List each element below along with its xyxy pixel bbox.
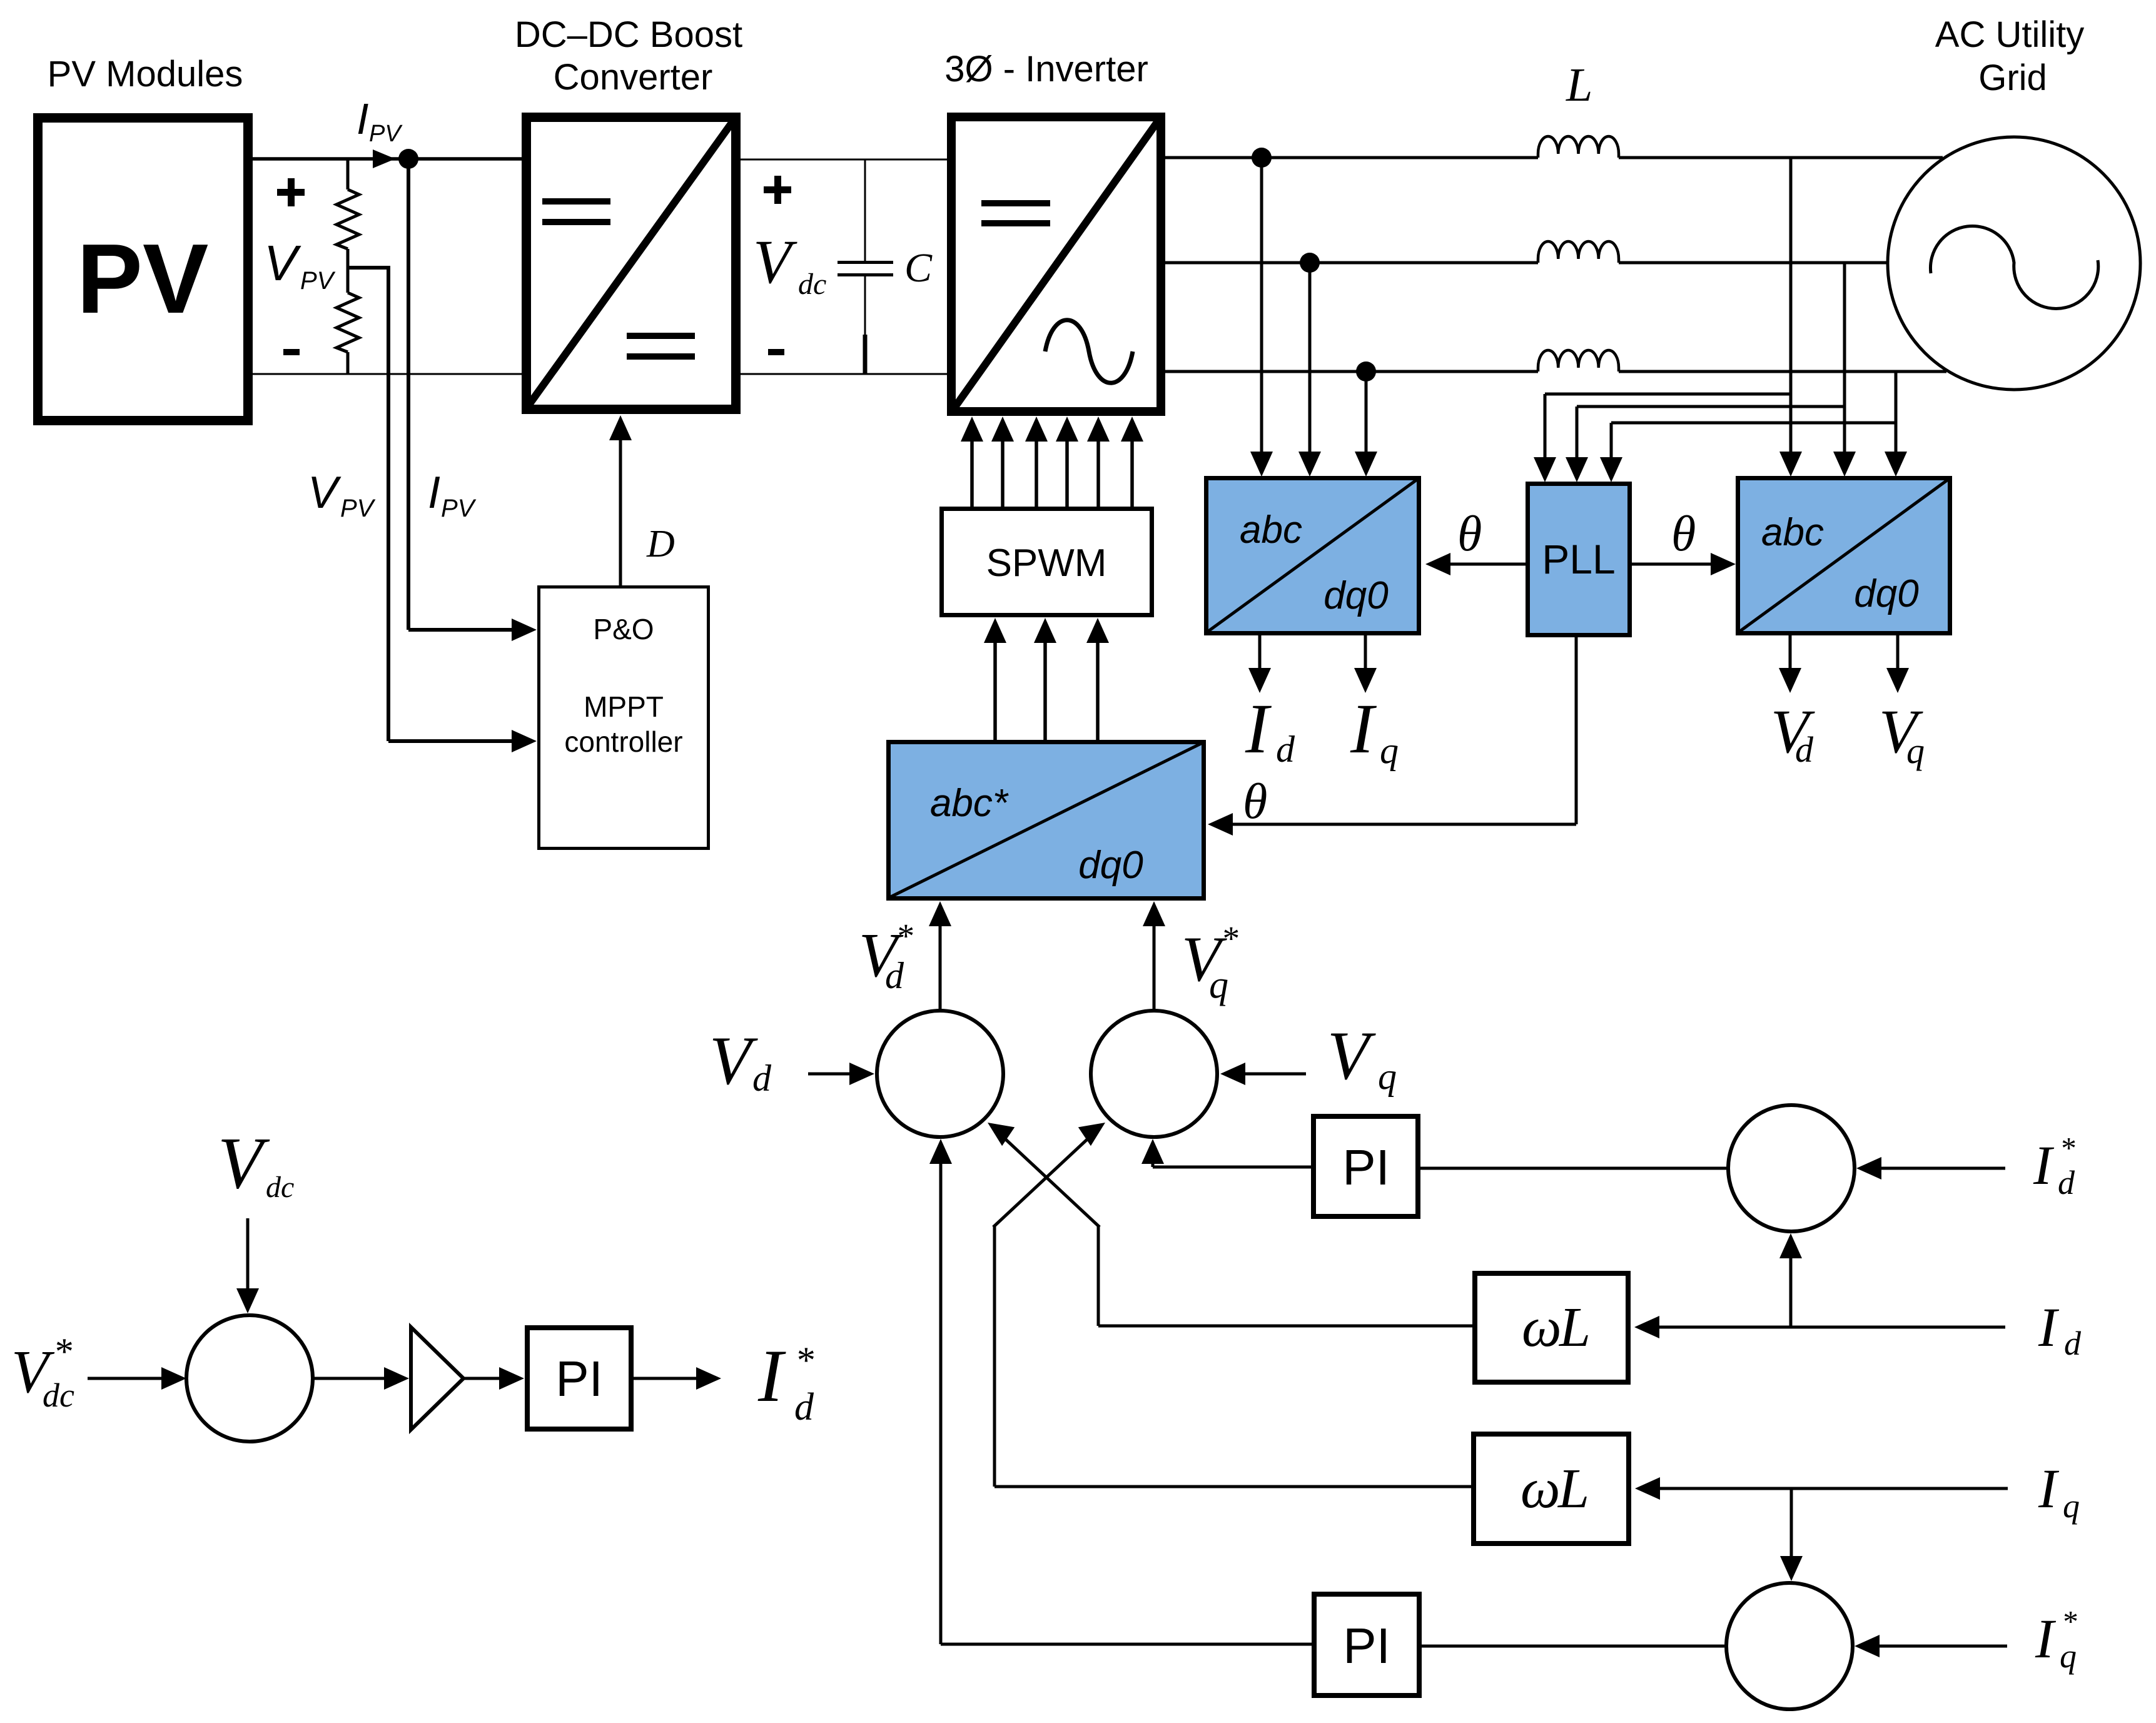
svg-text:q: q — [2063, 1487, 2080, 1525]
svg-text:*: * — [795, 1340, 814, 1381]
svg-text:V: V — [1327, 1018, 1376, 1094]
svg-text:DC–DC Boost: DC–DC Boost — [515, 14, 742, 55]
node dot phase B current tap — [1300, 253, 1320, 273]
label theta (to abc*) — [1243, 774, 1267, 829]
summing junction S3 (d current) — [1728, 1105, 1855, 1231]
svg-text:P&O: P&O — [593, 613, 654, 645]
capacitor C — [838, 159, 893, 374]
label C — [904, 245, 933, 291]
wire boost to inverter (top) — [741, 159, 947, 161]
arrowhead theta left — [1425, 553, 1450, 575]
gate drive wire 3 SPWM to inverter — [1025, 417, 1048, 507]
reference wire 2 abc* to SPWM — [1034, 618, 1056, 740]
3-phase inverter block U2 — [951, 117, 1161, 412]
svg-text:PV: PV — [340, 495, 376, 522]
node dot phase C current tap — [1356, 361, 1376, 381]
arrowhead voltage C into abc/dq0 — [1885, 452, 1907, 477]
svg-text:PV Modules: PV Modules — [48, 54, 243, 94]
arrowhead I_PV into MPPT — [512, 619, 537, 641]
label V_dc (DC link) — [753, 227, 826, 301]
wire V_PV sense — [348, 266, 529, 741]
P&O MPPT controller block — [539, 587, 709, 849]
arrowhead current B into abc/dq0 — [1298, 452, 1321, 477]
gate drive wire 1 SPWM to inverter — [961, 417, 983, 507]
label L — [1566, 59, 1592, 111]
inverter AC sine symbol — [1045, 320, 1133, 383]
wire phase A — [1165, 156, 1943, 159]
summing junction S0 (Vdc) — [186, 1315, 313, 1442]
svg-text:3Ø - Inverter: 3Ø - Inverter — [944, 49, 1148, 89]
PI controller (Vdc) block — [527, 1328, 631, 1429]
svg-text:q: q — [1209, 964, 1228, 1006]
label theta (right) — [1671, 507, 1696, 562]
wire I_d line — [1657, 1326, 2005, 1329]
reference wire 3 abc* to SPWM — [1086, 618, 1109, 740]
PV module block — [38, 118, 248, 421]
wire PV+ to boost (top) — [253, 157, 522, 161]
svg-text:d: d — [2058, 1164, 2075, 1201]
inductor L phase A — [1538, 136, 1619, 158]
svg-text:V: V — [709, 1023, 758, 1099]
wire PI (Vdc) output I_d* — [634, 1367, 721, 1390]
svg-text:L: L — [1566, 59, 1592, 111]
wire D (duty cycle) — [619, 420, 622, 585]
wire omegaL (d) output — [1098, 1325, 1472, 1328]
SPWM block — [942, 509, 1152, 615]
wire PI (q-loop) to S1 — [929, 1139, 952, 1644]
svg-text:dc: dc — [798, 268, 826, 301]
inductor L phase C — [1538, 350, 1619, 371]
svg-text:AC Utility: AC Utility — [1935, 14, 2084, 55]
svg-text:PV: PV — [441, 495, 477, 522]
svg-text:I: I — [757, 1334, 786, 1417]
svg-text:I: I — [1350, 690, 1377, 768]
svg-text:I: I — [2033, 1135, 2055, 1196]
arrowhead current A into abc/dq0 — [1250, 452, 1273, 477]
wire PLL input C — [1611, 423, 1896, 459]
svg-text:I: I — [2035, 1609, 2057, 1670]
arrowhead D into boost — [609, 415, 632, 440]
svg-text:d: d — [794, 1386, 814, 1428]
resistor R2 (lower divider) — [337, 268, 359, 374]
label V_q (feedforward) — [1327, 1018, 1397, 1097]
reference wire 1 abc* to SPWM — [984, 618, 1006, 740]
svg-text:d: d — [1276, 729, 1295, 770]
label I_PV (sense) — [428, 468, 477, 522]
wire PLL input B — [1577, 407, 1845, 459]
wire S3 to PI (d-axis) — [1420, 1167, 1728, 1170]
wire V_q* into abc* — [1143, 901, 1165, 1011]
label I_q (transform output) — [1350, 690, 1399, 771]
svg-text:*: * — [2062, 1604, 2077, 1639]
label V_q (transform output) — [1879, 697, 1925, 771]
wire phase B — [1165, 261, 1886, 265]
label I_PV (top) — [357, 94, 403, 147]
svg-text:dq0: dq0 — [1323, 574, 1388, 617]
svg-text:d: d — [752, 1058, 772, 1099]
wire theta PLL to abc/dq0 voltages — [1632, 563, 1728, 566]
svg-text:I: I — [1245, 690, 1272, 768]
svg-text:PV: PV — [369, 121, 403, 147]
PV Modules title — [48, 54, 243, 94]
svg-text:q: q — [2060, 1637, 2077, 1675]
gate drive wire 2 SPWM to inverter — [991, 417, 1014, 507]
arrowhead PLL input C — [1600, 457, 1622, 482]
svg-text:ω: ω — [1522, 1296, 1562, 1358]
boost diagonal — [527, 118, 736, 407]
minus label (PV side) — [283, 349, 300, 355]
svg-text:ω: ω — [1521, 1458, 1561, 1520]
plus label (PV side) — [277, 178, 305, 206]
svg-text:Grid: Grid — [1978, 58, 2047, 98]
wire omegaL-Id to S1 (diagonal) — [988, 1123, 1100, 1326]
svg-text:V: V — [308, 468, 342, 518]
arrow on I_PV wire — [373, 149, 395, 168]
gate drive wire 6 SPWM to inverter — [1121, 417, 1143, 507]
svg-text:SPWM: SPWM — [986, 542, 1107, 585]
wire voltage tap C — [1895, 371, 1898, 453]
svg-text:d: d — [885, 955, 904, 996]
omega-L block (q-axis) — [1474, 1434, 1629, 1544]
boost DC symbol (output) — [627, 333, 695, 360]
arrowhead voltage B into abc/dq0 — [1833, 452, 1856, 477]
svg-text:q: q — [1380, 730, 1399, 771]
wire I_d output — [1248, 635, 1271, 693]
svg-text:MPPT: MPPT — [584, 690, 664, 723]
wire I_d feedback to S3 — [1779, 1233, 1802, 1327]
svg-text:PV: PV — [77, 224, 209, 334]
arrowhead I_d into omegaL — [1634, 1316, 1659, 1338]
svg-text:q: q — [1378, 1056, 1397, 1097]
label V_PV (divider) — [264, 235, 336, 295]
svg-text:C: C — [904, 245, 933, 291]
svg-text:PI: PI — [555, 1351, 603, 1407]
label V_q* — [1182, 919, 1238, 1006]
PI controller (d-axis) block — [1313, 1116, 1418, 1216]
svg-text:dc: dc — [43, 1377, 74, 1414]
svg-text:*: * — [2060, 1131, 2075, 1165]
wire voltage tap B — [1843, 263, 1846, 453]
svg-text:PV: PV — [300, 267, 336, 295]
abc-dq0 transform block (currents) — [1206, 478, 1419, 634]
svg-text:L: L — [1557, 1458, 1589, 1520]
wire PLL input A — [1545, 394, 1791, 459]
abc-dq0 transform block (voltages) — [1738, 478, 1950, 634]
PI controller (q-axis) block — [1314, 1594, 1419, 1695]
svg-text:d: d — [2064, 1325, 2082, 1362]
wire I_d* input — [1856, 1157, 2005, 1180]
wire current tap C — [1365, 371, 1368, 453]
svg-text:L: L — [1558, 1296, 1591, 1358]
wire I_q line — [1658, 1487, 2008, 1490]
label V_d (transform output) — [1771, 697, 1815, 770]
svg-text:q: q — [1906, 730, 1925, 771]
svg-text:D: D — [646, 523, 675, 565]
boost DC symbol (input) — [542, 198, 610, 225]
label I_d (measured) — [2038, 1297, 2082, 1362]
svg-text:*: * — [1221, 919, 1238, 958]
svg-text:abc: abc — [1240, 508, 1302, 552]
svg-text:V: V — [753, 227, 797, 296]
svg-text:I: I — [2038, 1458, 2060, 1520]
PLL block — [1528, 484, 1630, 635]
gate drive wire 5 SPWM to inverter — [1087, 417, 1110, 507]
summing junction S1 (Vd*) — [877, 1011, 1003, 1137]
node junction dot I_PV — [398, 149, 418, 169]
dq0-abc* inverse transform block — [888, 742, 1204, 899]
label I_q (measured) — [2038, 1458, 2080, 1525]
wire I_q* input — [1855, 1635, 2007, 1657]
svg-text:*: * — [53, 1331, 72, 1372]
svg-text:θ: θ — [1243, 774, 1267, 829]
wire omegaL (q) output — [994, 1485, 1471, 1488]
wire PI (d-loop) to S2 — [1141, 1139, 1311, 1167]
inverter DC symbol — [981, 200, 1050, 226]
minus label (DC link) — [768, 349, 784, 355]
svg-text:d: d — [1795, 729, 1814, 770]
DC-DC Boost Converter title — [515, 14, 742, 98]
arrowhead PLL input A — [1534, 457, 1556, 482]
node dot phase A current tap — [1252, 148, 1272, 168]
svg-text:abc: abc — [1761, 511, 1824, 554]
label V_dc* reference — [11, 1331, 74, 1414]
wire V_d output — [1779, 635, 1801, 693]
arrowhead current C into abc/dq0 — [1355, 452, 1377, 477]
label I_d* reference — [2033, 1131, 2075, 1201]
gain amplifier triangle — [411, 1327, 463, 1430]
wire phase C — [1165, 370, 1946, 373]
label V_PV (sense) — [308, 468, 376, 522]
wire V_d input to S1 — [808, 1063, 874, 1085]
svg-text:*: * — [896, 917, 913, 955]
wire V_dc down to S0 — [236, 1218, 259, 1313]
svg-text:V: V — [218, 1122, 270, 1204]
label theta (left) — [1457, 507, 1482, 562]
arrowhead PLL input B — [1566, 457, 1588, 482]
wire S0 to gain — [313, 1367, 409, 1390]
plus label (DC link) — [764, 176, 791, 204]
svg-text:Converter: Converter — [554, 57, 713, 98]
label I_d* (from Vdc loop) — [757, 1334, 814, 1428]
svg-text:controller: controller — [564, 725, 682, 758]
label V_d (feedforward) — [709, 1023, 772, 1099]
wire omegaL-Iq to S2 (diagonal) — [993, 1123, 1105, 1487]
svg-text:θ: θ — [1671, 507, 1696, 562]
wire boost to inverter (bottom) — [741, 373, 947, 375]
label I_q* reference — [2035, 1604, 2077, 1675]
wire I_q output — [1354, 635, 1377, 693]
AC Utility Grid title — [1935, 14, 2084, 98]
wire V_dc* into S0 — [88, 1367, 186, 1390]
arrowhead theta into abc* block — [1208, 813, 1233, 836]
wire I_PV sense — [408, 159, 529, 630]
arrowhead I_q into omegaL — [1635, 1477, 1660, 1500]
wire gain to PI — [463, 1367, 524, 1390]
DC-DC boost converter block U1 — [527, 118, 736, 410]
svg-text:I: I — [357, 94, 368, 143]
svg-text:I: I — [428, 468, 440, 518]
wire current tap A — [1260, 158, 1263, 452]
label I_d (transform output) — [1245, 690, 1295, 770]
wire theta PLL to abc* block — [1216, 637, 1576, 824]
svg-text:PLL: PLL — [1542, 536, 1615, 582]
inductor L phase B — [1538, 241, 1619, 263]
wire current tap B — [1308, 263, 1312, 453]
label V_d* — [859, 917, 913, 996]
summing junction S4 (q current) — [1726, 1583, 1853, 1709]
svg-text:V: V — [264, 235, 301, 291]
3-phase inverter title — [944, 49, 1148, 89]
svg-text:PI: PI — [1342, 1139, 1390, 1195]
svg-text:θ: θ — [1457, 507, 1482, 562]
svg-text:PI: PI — [1343, 1618, 1390, 1674]
wire theta PLL to abc/dq0 currents — [1434, 563, 1526, 566]
svg-text:dq0: dq0 — [1854, 572, 1918, 615]
omega-L block (d-axis) — [1475, 1273, 1628, 1382]
wire voltage tap A — [1789, 158, 1793, 453]
arrowhead theta right — [1711, 553, 1736, 575]
inverter diagonal — [951, 117, 1161, 412]
arrowhead V_PV into MPPT — [512, 730, 537, 752]
svg-text:I: I — [2038, 1297, 2060, 1358]
svg-text:dc: dc — [266, 1171, 294, 1204]
svg-text:dq0: dq0 — [1078, 844, 1143, 887]
label V_dc (measured) — [218, 1122, 294, 1204]
wire S4 to PI (q-axis) — [1422, 1645, 1724, 1648]
wire V_q output — [1886, 635, 1909, 693]
arrowhead voltage A into abc/dq0 — [1779, 452, 1802, 477]
wire PI (q) output — [941, 1643, 1312, 1646]
wire I_q feedback to S4 — [1780, 1488, 1803, 1581]
label D — [646, 523, 675, 565]
svg-text:abc*: abc* — [930, 782, 1009, 825]
summing junction S2 (Vq*) — [1091, 1011, 1217, 1137]
AC utility grid source — [1888, 137, 2140, 390]
resistor R1 (upper divider) — [337, 159, 359, 268]
wire PV- to boost (bottom) — [253, 373, 522, 375]
gate drive wire 4 SPWM to inverter — [1056, 417, 1078, 507]
wire V_q input to S2 — [1220, 1063, 1306, 1085]
wire V_d* into abc* — [929, 901, 951, 1011]
